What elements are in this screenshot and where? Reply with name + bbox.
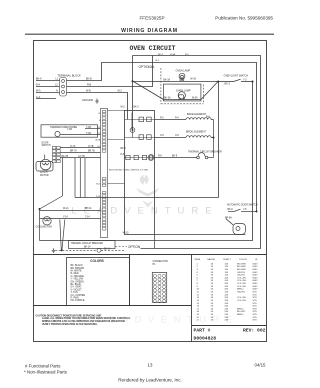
optional dashed box bbox=[139, 65, 204, 104]
svg-text:WIRE: WIRE bbox=[195, 259, 201, 261]
legend divider vertical bbox=[129, 255, 131, 306]
svg-text:GN-YEL: GN-YEL bbox=[237, 275, 246, 277]
oven light switch bbox=[224, 75, 249, 86]
svg-text:GY- GRAY: GY- GRAY bbox=[71, 286, 82, 289]
wire bundle verticals bbox=[62, 158, 85, 198]
svg-text:STD: STD bbox=[253, 320, 258, 322]
svg-text:W-2G: W-2G bbox=[123, 233, 129, 235]
main outer frame bbox=[34, 41, 267, 342]
svg-text:STD: STD bbox=[253, 303, 258, 305]
svg-text:BK-B: BK-B bbox=[86, 77, 92, 80]
svg-text:COL-YEL: COL-YEL bbox=[237, 277, 247, 279]
svg-text:STD: STD bbox=[253, 311, 258, 313]
svg-text:BR-7A: BR-7A bbox=[70, 150, 77, 153]
svg-text:TEMP C: TEMP C bbox=[223, 259, 232, 261]
svg-text:BK-3A: BK-3A bbox=[164, 97, 171, 100]
wire top bus y=55.5 bbox=[133, 56, 261, 249]
wire rows to EOC lower pins bbox=[40, 209, 101, 241]
svg-text:SWITCH: SWITCH bbox=[42, 145, 51, 147]
svg-text:Y- YELLOW: Y- YELLOW bbox=[71, 279, 84, 281]
svg-text:* Non-Illustrated Parts: * Non-Illustrated Parts bbox=[24, 370, 68, 375]
svg-text:600V: 600V bbox=[253, 277, 259, 279]
temperature probe bbox=[41, 125, 98, 137]
legend divider top bbox=[34, 254, 267, 256]
svg-text:600V: 600V bbox=[253, 269, 259, 271]
svg-text:W-14: W-14 bbox=[63, 208, 69, 210]
svg-text:FFES3025P: FFES3025P bbox=[139, 16, 164, 21]
svg-text:O-7A: O-7A bbox=[70, 145, 76, 148]
bus labels bbox=[156, 53, 190, 62]
svg-text:BK-14: BK-14 bbox=[84, 247, 91, 249]
wire right vertical A bbox=[40, 82, 253, 241]
switch lever light switch bbox=[234, 79, 241, 81]
svg-text:COLOR: COLOR bbox=[239, 259, 247, 261]
svg-text:W- WHITE: W- WHITE bbox=[71, 271, 83, 273]
svg-text:600V: 600V bbox=[253, 263, 259, 265]
svg-text:600V: 600V bbox=[253, 283, 259, 285]
relay contacts bake row bbox=[125, 117, 155, 139]
wire twisted pair to ground node bbox=[60, 220, 65, 251]
svg-text:BK-8: BK-8 bbox=[228, 209, 234, 211]
svg-text:BAKE ELEMENT: BAKE ELEMENT bbox=[187, 113, 207, 116]
svg-text:600V: 600V bbox=[253, 266, 259, 268]
svg-text:W-3A: W-3A bbox=[190, 78, 196, 81]
svg-text:AUTOMATIC DOOR SWITCH: AUTOMATIC DOOR SWITCH bbox=[227, 203, 258, 206]
oven lamp 2 box bbox=[163, 84, 201, 101]
svg-text:BR-7B: BR-7B bbox=[88, 151, 95, 153]
svg-text:OPTIONAL: OPTIONAL bbox=[139, 65, 155, 69]
wire table bbox=[195, 258, 259, 261]
latch motor bbox=[36, 155, 53, 178]
wire probe to EOC bbox=[60, 129, 100, 135]
node left return bbox=[39, 208, 41, 210]
electronic oven control connector strip bbox=[101, 109, 108, 238]
part number box bbox=[192, 325, 267, 327]
wire element right vertical bbox=[213, 120, 215, 158]
cooling fan bbox=[36, 217, 53, 229]
thermal circuit breaker box (cooling) bbox=[69, 241, 116, 249]
svg-text:GN-YEL: GN-YEL bbox=[237, 272, 246, 274]
svg-text:W-3A: W-3A bbox=[192, 97, 198, 100]
automatic door switch bbox=[225, 203, 258, 219]
svg-text:BR- BROWN: BR- BROWN bbox=[71, 268, 85, 270]
door switch connector bbox=[42, 142, 61, 162]
svg-text:WIRING DIAGRAM: WIRING DIAGRAM bbox=[121, 28, 178, 34]
wire diagonal bundle to node bbox=[40, 196, 63, 209]
svg-text:BK-3A: BK-3A bbox=[163, 79, 170, 82]
svg-text:PART #: PART # bbox=[194, 328, 211, 334]
svg-text:P- PINK: P- PINK bbox=[71, 298, 80, 300]
svg-text:COL-YEL: COL-YEL bbox=[237, 300, 247, 302]
wire dashed ground run bbox=[55, 248, 125, 252]
watermark logo bbox=[136, 175, 159, 208]
wire lamp2 row bbox=[164, 99, 202, 101]
svg-text:GN- GREEN: GN- GREEN bbox=[71, 281, 85, 283]
relay board box bbox=[125, 111, 155, 235]
svg-text:Y-14: Y-14 bbox=[63, 216, 68, 218]
svg-text:D0004828: D0004828 bbox=[194, 336, 217, 342]
wire ground row bbox=[36, 98, 56, 100]
wire lamp feed vertical bbox=[132, 56, 134, 131]
svg-text:BK-GRN: BK-GRN bbox=[237, 269, 246, 271]
oven lamp 2 bbox=[164, 90, 198, 100]
node light switch right bbox=[252, 81, 254, 83]
svg-text:W-2: W-2 bbox=[121, 107, 126, 109]
svg-text:GN-YEL: GN-YEL bbox=[237, 292, 246, 294]
wire dashed option link bbox=[115, 246, 127, 248]
svg-text:WIRING ERRORS CAN CAUSE IMPROP: WIRING ERRORS CAN CAUSE IMPROPER AND DAN… bbox=[42, 320, 126, 323]
svg-text:COLORS: COLORS bbox=[90, 259, 104, 263]
svg-text:LEADVENTURE: LEADVENTURE bbox=[71, 206, 218, 217]
svg-text:W-2: W-2 bbox=[118, 90, 123, 93]
svg-text:STD: STD bbox=[253, 306, 258, 308]
wire stubs EOC to relay bbox=[108, 111, 125, 184]
svg-text:GROUND: GROUND bbox=[82, 99, 93, 102]
svg-text:W-2B: W-2B bbox=[95, 140, 101, 142]
caution text bbox=[36, 314, 131, 325]
svg-text:DOOR: DOOR bbox=[42, 142, 49, 144]
terminal block bbox=[58, 74, 82, 97]
wire N row from terminal block bbox=[36, 92, 60, 94]
svg-text:W-B: W-B bbox=[86, 90, 91, 93]
ground symbol lower bbox=[52, 248, 56, 252]
svg-text:OVEN CIRCUIT: OVEN CIRCUIT bbox=[129, 45, 175, 52]
svg-text:O- ORANGE: O- ORANGE bbox=[71, 275, 85, 278]
svg-text:BRN-1: BRN-1 bbox=[237, 289, 244, 291]
svg-text:BL- BLUE: BL- BLUE bbox=[71, 284, 82, 286]
ground symbol main bbox=[82, 99, 99, 104]
wire lamp row 1 bbox=[133, 81, 219, 83]
node element join bbox=[213, 137, 215, 139]
wire diagonal to lamp2 bbox=[133, 81, 164, 100]
svg-text:R- RED: R- RED bbox=[71, 273, 79, 275]
svg-text:# Functional Parts: # Functional Parts bbox=[25, 364, 61, 369]
svg-text:CU- COPPER: CU- COPPER bbox=[71, 295, 86, 297]
svg-text:VERIFY PROPER OPERATION AFTER: VERIFY PROPER OPERATION AFTER SERVICING. bbox=[42, 323, 98, 326]
svg-text:BK-3: BK-3 bbox=[225, 83, 231, 86]
automatic door motor bbox=[226, 219, 246, 235]
svg-text:CAUTION-DISCONNECT POWER BEFOR: CAUTION-DISCONNECT POWER BEFORE SERVICIN… bbox=[36, 314, 103, 317]
svg-text:R-B: R-B bbox=[87, 84, 92, 87]
svg-text:STD: STD bbox=[253, 297, 258, 299]
svg-text:BK-9: BK-9 bbox=[172, 156, 178, 158]
svg-text:BK-GRN: BK-GRN bbox=[237, 263, 246, 265]
svg-text:OVEN LAMP: OVEN LAMP bbox=[176, 70, 191, 73]
node ground junction bbox=[61, 249, 63, 251]
svg-text:BK-8: BK-8 bbox=[121, 148, 127, 150]
broil element bbox=[155, 131, 214, 138]
svg-text:STD: STD bbox=[253, 294, 258, 296]
svg-text:BK-GRY: BK-GRY bbox=[237, 311, 246, 313]
svg-text:STD: STD bbox=[253, 308, 258, 310]
svg-text:GY-7B: GY-7B bbox=[78, 156, 85, 158]
svg-text:STD: STD bbox=[253, 292, 258, 294]
wire L1 row from terminal block bbox=[36, 80, 60, 82]
svg-text:Y-1B: Y-1B bbox=[67, 129, 72, 131]
svg-text:BRN-1: BRN-1 bbox=[237, 314, 244, 316]
svg-text:04/15: 04/15 bbox=[255, 363, 267, 368]
svg-text:BK-14: BK-14 bbox=[85, 208, 92, 210]
node door switch junction bbox=[256, 211, 258, 213]
oven lamp 1 bbox=[163, 70, 196, 82]
svg-text:600V: 600V bbox=[253, 286, 259, 288]
table divider vertical bbox=[191, 255, 193, 342]
svg-text:TEMPERATURE PROBE: TEMPERATURE PROBE bbox=[50, 126, 77, 129]
wire switch node down bbox=[218, 82, 220, 198]
node L1 lamp junction bbox=[132, 80, 134, 82]
wires door switch to EOC bbox=[60, 148, 100, 158]
node light switch left bbox=[217, 81, 219, 83]
svg-text:COL-YEL: COL-YEL bbox=[237, 280, 247, 282]
svg-text:600V: 600V bbox=[253, 289, 259, 291]
wire light switch row bbox=[218, 81, 234, 83]
svg-text:BROIL ELEMENT: BROIL ELEMENT bbox=[186, 131, 206, 134]
svg-text:BK-3: BK-3 bbox=[158, 54, 164, 56]
svg-text:Publication No. 5995660395: Publication No. 5995660395 bbox=[215, 16, 273, 21]
relay contacts breaker row bbox=[125, 155, 155, 161]
svg-text:O-7B: O-7B bbox=[88, 146, 94, 148]
svg-text:BK- BLACK: BK- BLACK bbox=[71, 264, 84, 267]
svg-text:STD: STD bbox=[253, 314, 258, 316]
svg-text:REV: 002: REV: 002 bbox=[243, 328, 266, 334]
svg-text:OPTION: OPTION bbox=[128, 245, 141, 249]
svg-text:GAUGE: GAUGE bbox=[207, 258, 215, 261]
svg-text:13: 13 bbox=[148, 363, 153, 368]
svg-text:T- TAN: T- TAN bbox=[71, 291, 78, 294]
svg-text:Rendered by LeadVenture, Inc.: Rendered by LeadVenture, Inc. bbox=[118, 378, 182, 383]
svg-text:R-3A: R-3A bbox=[170, 53, 176, 56]
svg-text:V- VIOLET: V- VIOLET bbox=[71, 289, 83, 291]
svg-text:600V: 600V bbox=[253, 280, 259, 282]
svg-text:R-A: R-A bbox=[36, 84, 41, 87]
svg-text:COOLING FAN: COOLING FAN bbox=[36, 225, 53, 228]
svg-text:COL-YEL: COL-YEL bbox=[237, 297, 247, 299]
wire labels terminal area bbox=[36, 77, 123, 99]
bake element bbox=[155, 113, 214, 120]
svg-text:LATCH: LATCH bbox=[40, 171, 48, 174]
wire L1 into relay board bbox=[131, 113, 133, 131]
wire relay right edge down bbox=[154, 235, 156, 249]
svg-text:OVEN LIGHT SWITCH: OVEN LIGHT SWITCH bbox=[224, 75, 249, 78]
svg-text:COL-YEL: COL-YEL bbox=[237, 283, 247, 285]
svg-text:TERMINAL BLOCK: TERMINAL BLOCK bbox=[58, 74, 82, 78]
svg-text:N: N bbox=[56, 90, 58, 93]
EOC pin labels bbox=[95, 113, 101, 198]
svg-text:BK-A: BK-A bbox=[36, 77, 42, 80]
svg-text:BK-GRN: BK-GRN bbox=[237, 266, 246, 268]
svg-text:G-A: G-A bbox=[36, 96, 41, 99]
legend divider bottom bbox=[34, 305, 192, 307]
wire diagonal lamp2 to switch node bbox=[201, 82, 218, 100]
svg-text:W-A: W-A bbox=[36, 90, 41, 93]
svg-text:THERMAL CIRCUIT BREAKER: THERMAL CIRCUIT BREAKER bbox=[188, 150, 222, 153]
node relay junction circled bbox=[130, 128, 135, 133]
connector P1 grid bbox=[152, 272, 166, 302]
wire relay bottom to door motor bbox=[155, 234, 246, 236]
wire L2 row from terminal block bbox=[36, 86, 60, 88]
svg-text:MOTOR: MOTOR bbox=[40, 175, 49, 177]
header rule bbox=[25, 33, 274, 35]
svg-text:LABEL ALL WIRES PRIOR TO DISCO: LABEL ALL WIRES PRIOR TO DISCONNECTION W… bbox=[42, 317, 131, 320]
svg-text:BK-2: BK-2 bbox=[134, 107, 140, 109]
svg-text:ELECTRONIC OVEN CONTROL TO GND: ELECTRONIC OVEN CONTROL TO GND bbox=[109, 169, 149, 171]
svg-text:600V: 600V bbox=[253, 275, 259, 277]
thermal circuit breaker (element circuit) bbox=[155, 150, 223, 159]
svg-text:STD: STD bbox=[253, 317, 258, 319]
wire long return row bbox=[75, 197, 219, 199]
svg-text:COL-YEL: COL-YEL bbox=[237, 286, 247, 288]
svg-text:BRN-1: BRN-1 bbox=[237, 308, 244, 310]
svg-text:T-14: T-14 bbox=[85, 216, 90, 218]
svg-text:600V: 600V bbox=[253, 272, 259, 274]
svg-text:PR- PURPLE: PR- PURPLE bbox=[71, 300, 85, 302]
colors legend box bbox=[67, 258, 130, 306]
svg-text:STD: STD bbox=[253, 300, 258, 302]
svg-text:THERMAL CIRCUIT BREAKER: THERMAL CIRCUIT BREAKER bbox=[71, 242, 104, 245]
